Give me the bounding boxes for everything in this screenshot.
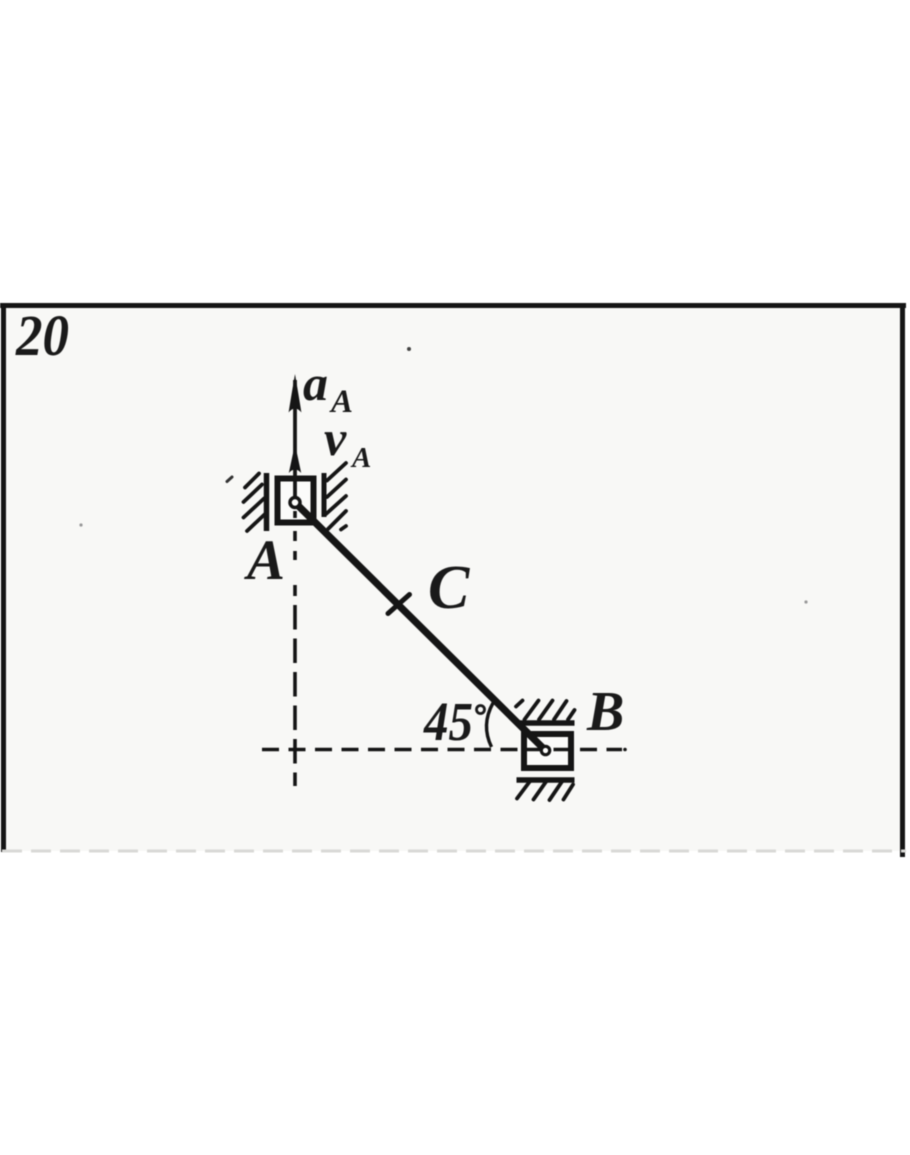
angle arc 45 degrees [487,703,493,747]
tick mark at C [388,595,410,614]
top wall of slider B [519,720,575,726]
panel background [3,305,903,851]
bottom wall hatching [517,781,573,801]
svg-text:45: 45 [423,691,473,752]
frame top border [0,303,906,308]
right wall hatching [326,463,346,530]
rod AB [295,503,546,751]
svg-text:C: C [428,554,470,622]
left wall hatching [244,474,265,532]
svg-text:v: v [324,410,347,466]
svg-text:A: A [350,442,371,474]
vertical dashed guide through A [293,511,297,786]
svg-text:20: 20 [15,303,69,368]
frame right border [900,303,905,857]
acceleration arrow line [293,380,297,503]
frame left border [1,303,6,852]
speck right [804,600,807,603]
degree symbol [477,706,485,714]
top wall hatching [516,701,575,720]
left wall of slider A [264,473,270,531]
slider block B [524,734,571,768]
speck left of wall A [227,477,232,482]
speck left [79,523,82,526]
pin B [541,746,549,754]
bottom wall of slider B [517,777,575,783]
svg-text:B: B [586,681,624,743]
speck near top [407,347,411,351]
pin A [290,498,300,508]
arrowhead a_A [289,374,302,413]
horizontal dashed guide through B [262,748,622,752]
slider block A [278,479,314,523]
arrowhead v_A [289,444,301,473]
svg-text:A: A [244,529,285,592]
svg-text:a: a [303,355,328,411]
dot end of horizontal guide [623,748,627,752]
right wall of slider A [322,473,327,517]
frame bottom border (faint) [2,850,906,853]
